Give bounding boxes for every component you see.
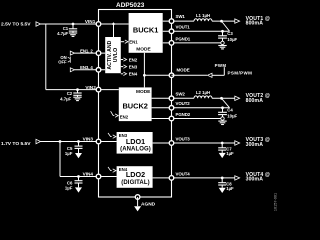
svg-text:MODE: MODE xyxy=(177,68,190,73)
svg-text:BUCK2: BUCK2 xyxy=(122,101,147,110)
svg-text:1µF: 1µF xyxy=(65,185,73,190)
svg-text:PGND1: PGND1 xyxy=(176,36,191,41)
svg-text:800mA: 800mA xyxy=(246,21,264,27)
svg-text:10µF: 10µF xyxy=(227,37,237,42)
svg-text:L1 1µH: L1 1µH xyxy=(196,13,210,18)
svg-text:LDO2: LDO2 xyxy=(126,170,145,179)
svg-text:MODE: MODE xyxy=(136,47,151,53)
svg-text:L2 1µH: L2 1µH xyxy=(196,90,210,95)
svg-text:OFF: OFF xyxy=(58,60,67,65)
svg-text:PGND2: PGND2 xyxy=(176,112,191,117)
svg-text:1µF: 1µF xyxy=(65,151,73,156)
svg-text:ADP5023: ADP5023 xyxy=(116,2,145,9)
svg-text:2.5V TO 5.5V: 2.5V TO 5.5V xyxy=(1,22,31,28)
svg-text:(DIGITAL): (DIGITAL) xyxy=(121,180,149,186)
svg-text:VIN4: VIN4 xyxy=(83,171,94,176)
svg-text:VIN3: VIN3 xyxy=(83,137,94,142)
svg-text:LDO1: LDO1 xyxy=(126,137,145,146)
svg-text:800mA: 800mA xyxy=(246,98,264,104)
svg-text:C3: C3 xyxy=(227,31,233,36)
svg-text:PSM/PWM: PSM/PWM xyxy=(228,70,253,75)
svg-text:SW1: SW1 xyxy=(176,14,186,19)
svg-text:1.7V TO 5.5V: 1.7V TO 5.5V xyxy=(1,141,31,147)
svg-text:VOUT2: VOUT2 xyxy=(176,101,191,106)
svg-text:PWM: PWM xyxy=(215,63,227,68)
svg-text:AGND: AGND xyxy=(141,202,156,208)
svg-text:EN4: EN4 xyxy=(129,72,138,77)
svg-text:C2: C2 xyxy=(67,91,73,96)
svg-text:VIN2: VIN2 xyxy=(85,85,96,90)
svg-text:EN2: EN2 xyxy=(129,57,138,62)
svg-text:1µF: 1µF xyxy=(226,186,234,191)
svg-text:300mA: 300mA xyxy=(246,142,264,148)
svg-text:UVLO: UVLO xyxy=(113,48,119,62)
svg-text:C4: C4 xyxy=(227,108,233,113)
svg-text:4.7µF: 4.7µF xyxy=(57,31,68,36)
svg-text:EN2: EN2 xyxy=(120,115,129,120)
svg-text:4.7µF: 4.7µF xyxy=(60,97,71,102)
svg-text:VOUT4: VOUT4 xyxy=(176,171,191,176)
svg-text:BUCK1: BUCK1 xyxy=(133,25,158,34)
svg-text:EN3: EN3 xyxy=(129,65,138,70)
svg-text:VIN1: VIN1 xyxy=(85,19,96,24)
svg-text:VOUT1: VOUT1 xyxy=(176,25,191,30)
svg-text:10µF: 10µF xyxy=(227,114,237,119)
svg-text:300mA: 300mA xyxy=(246,177,264,183)
svg-text:SW2: SW2 xyxy=(176,91,186,96)
svg-text:(ANALOG): (ANALOG) xyxy=(120,146,151,152)
svg-text:10157-001: 10157-001 xyxy=(274,193,278,211)
svg-text:EN1, 2: EN1, 2 xyxy=(80,48,93,53)
svg-text:EN1: EN1 xyxy=(129,40,138,45)
svg-text:MODE: MODE xyxy=(136,89,151,95)
svg-text:1µF: 1µF xyxy=(226,151,234,156)
svg-text:VOUT3: VOUT3 xyxy=(176,136,191,141)
svg-text:EN3, 4: EN3, 4 xyxy=(80,65,93,70)
